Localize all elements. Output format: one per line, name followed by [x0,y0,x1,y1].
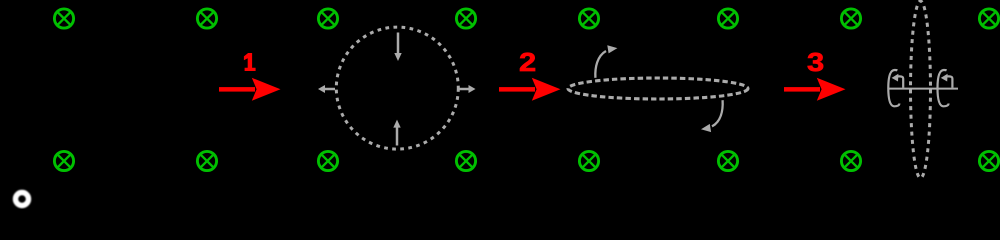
svg-text:2: 2 [519,47,536,77]
svg-text:3: 3 [807,47,824,77]
